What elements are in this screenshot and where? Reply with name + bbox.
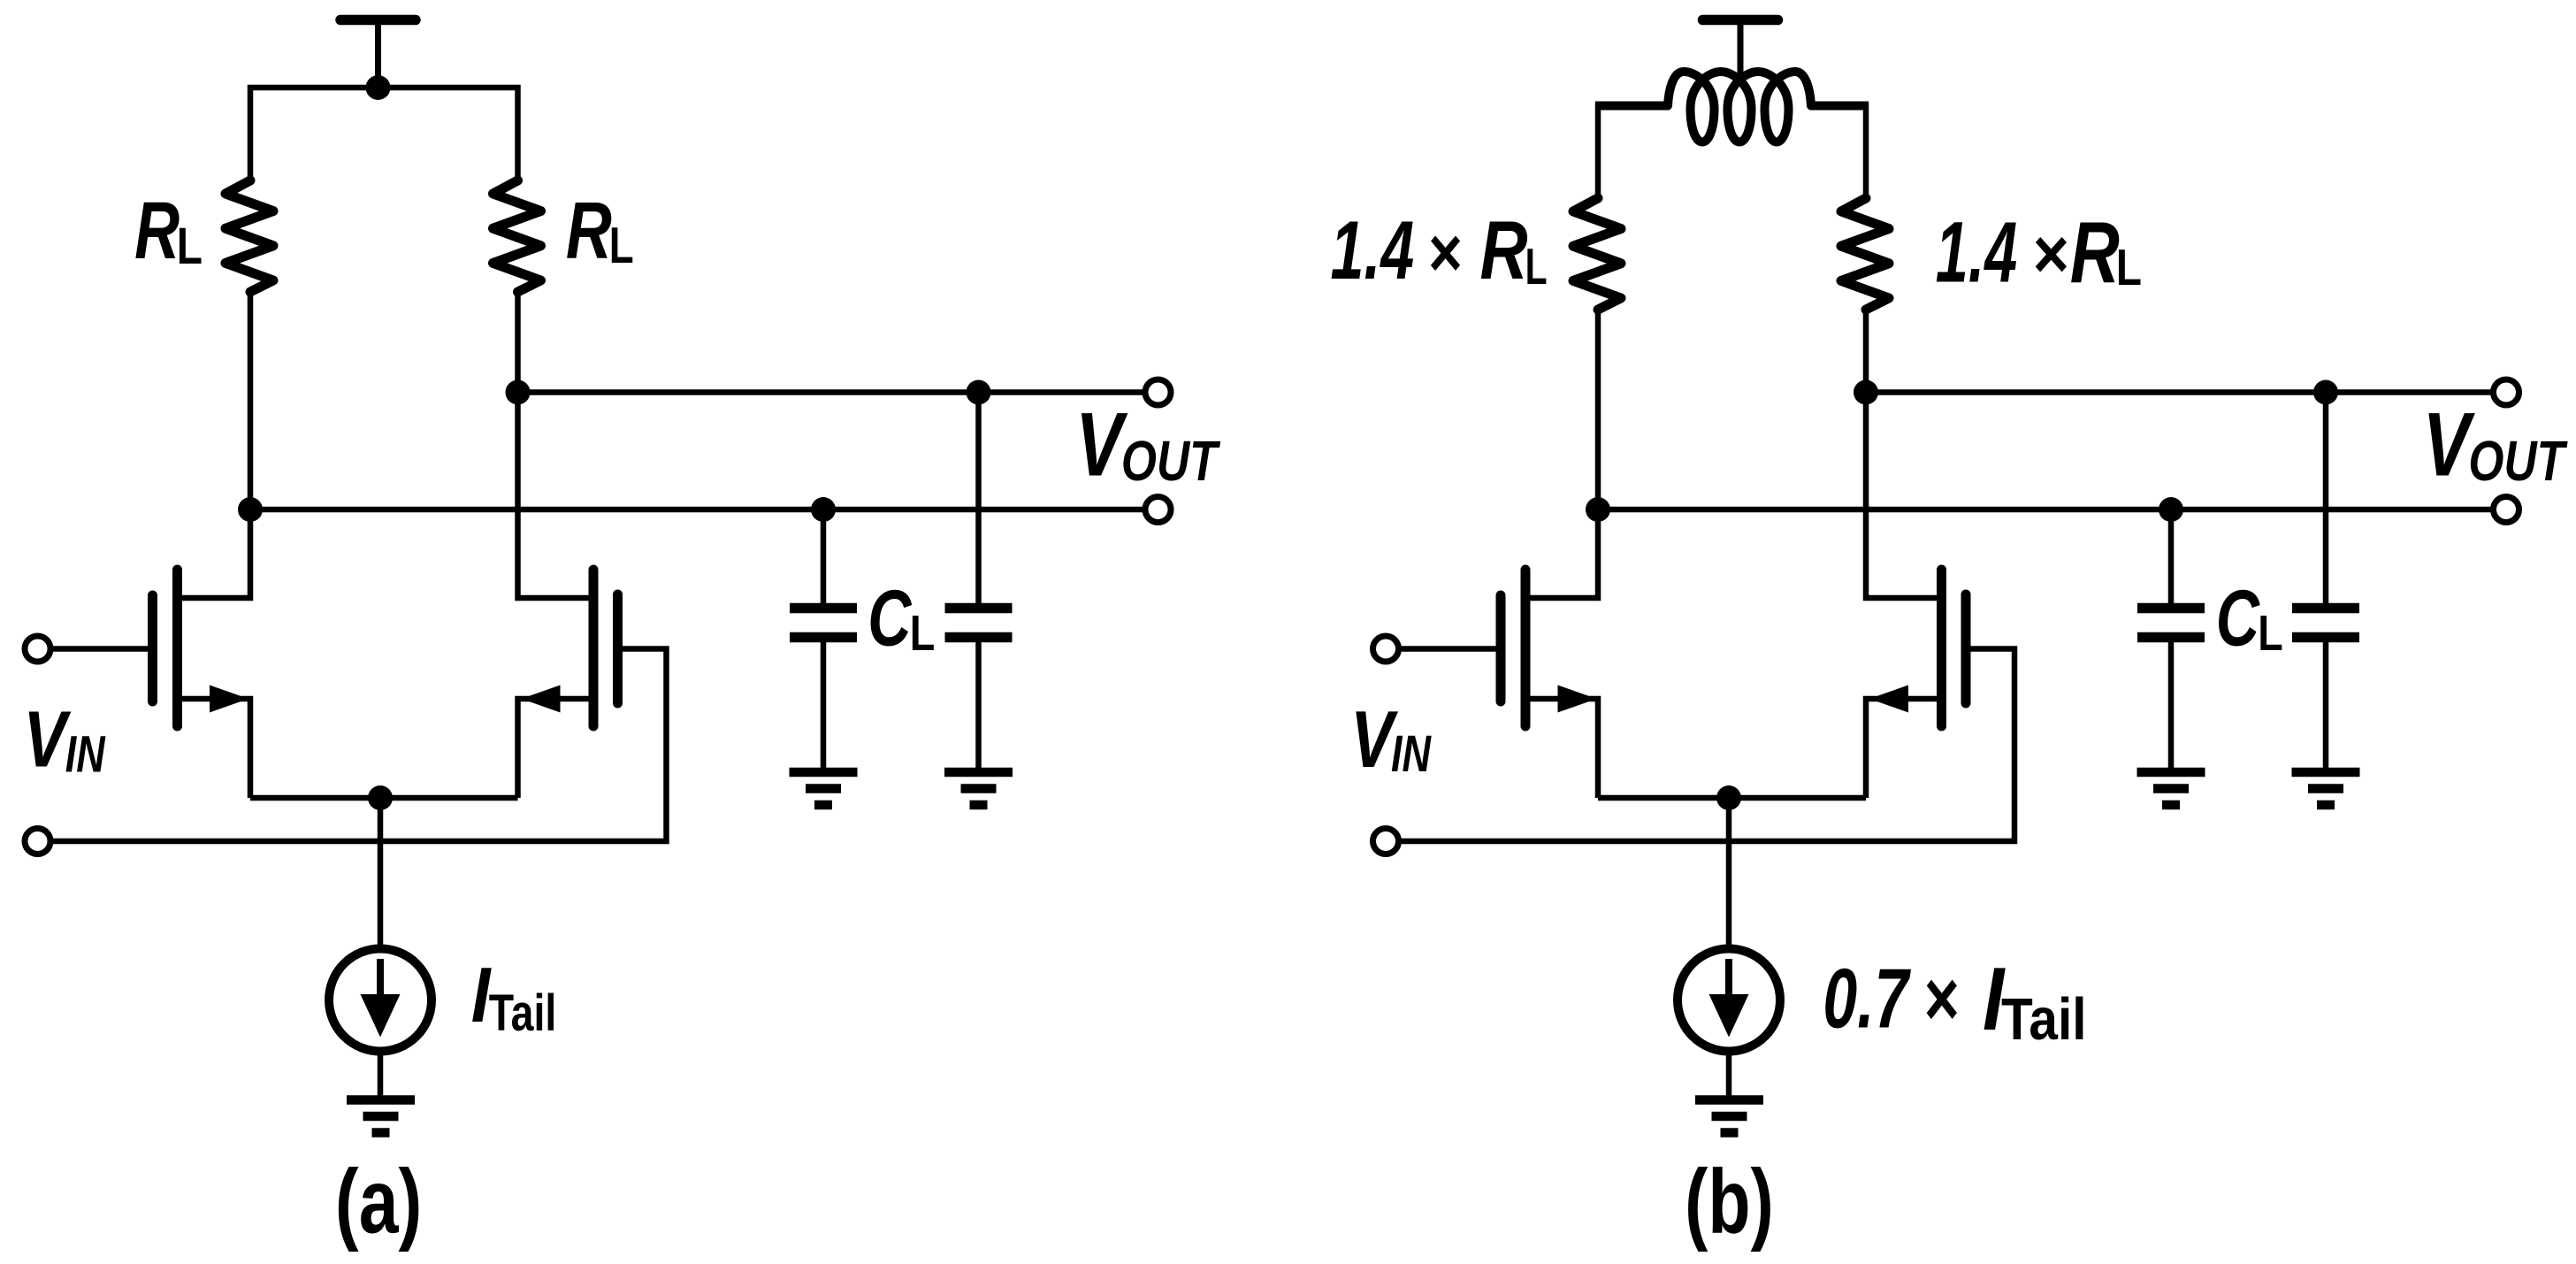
wire left branch (b) [1529,309,1599,598]
wire CL left top (a) [821,509,827,605]
caption (a) [335,1150,422,1253]
transistor M3 channel bar [1521,570,1531,726]
terminal VIN- (b) [1373,829,1399,854]
arrow M4 source [1869,686,1908,713]
label RL (a left) [134,186,203,276]
svg-text:(a): (a) [335,1150,422,1253]
wire M2 source [518,699,591,798]
wire CL left top (b) [2168,509,2175,605]
node tail (b) [1716,785,1741,810]
svg-text:L: L [910,606,936,662]
wire CL left bottom (b) [2168,642,2175,768]
label 1.4xRL (b left) [1331,203,1548,296]
wire top rail (a) [250,88,518,182]
svg-text:Tail: Tail [2001,987,2087,1053]
ground CL right (a) [944,772,1013,805]
svg-text:IN: IN [1391,724,1432,782]
resistor 1.4RL (b right) [1841,198,1889,310]
capacitor CL (b left) [2137,609,2205,638]
label 0.7xITail (b) [1823,950,2086,1053]
svg-text:R: R [134,186,180,276]
wire M2 gate [50,649,667,842]
node tail (a) [368,785,393,810]
arrow M3 source [1558,686,1597,713]
wire VOUT- (b) [1598,507,2495,513]
label RL (a right) [566,186,634,275]
capacitor CL (a left) [790,609,857,638]
wire M1 gate [50,646,149,652]
wire tail stem (a) [378,798,384,949]
wire below current source (b) [1726,1051,1732,1098]
wire VOUT+ (b) [1866,389,2495,395]
caption (b) [1685,1151,1774,1253]
terminal VIN+ (a) [25,636,50,662]
svg-text:V: V [2423,395,2475,494]
terminal VOUT+ (b) [2494,379,2519,405]
svg-text:V: V [1075,395,1127,494]
resistor 1.4RL (b left) [1573,198,1621,310]
svg-text:Tail: Tail [489,984,557,1042]
power rail VDD symbol (b) [1703,20,1778,82]
terminal VIN+ (b) [1373,636,1399,662]
power rail VDD symbol (a) [340,20,416,87]
node CL left (b) [2159,497,2183,522]
arrow M2 source [522,686,561,713]
label VOUT (b) [2423,395,2568,494]
svg-text:C: C [2216,573,2260,662]
ground CL right (b) [2292,772,2360,805]
transistor M2 gate bar [613,594,623,703]
wire VOUT- (a) [250,507,1147,513]
terminal VIN- (a) [25,829,50,854]
svg-text:C: C [868,573,912,662]
svg-text:L: L [1525,238,1548,295]
terminal VOUT- (a) [1145,497,1171,523]
label CL (b) [2216,573,2283,662]
current source 0.7 ITail (b) [1678,949,1780,1052]
svg-text:OUT: OUT [2468,431,2568,493]
svg-text:R: R [566,186,612,275]
svg-text:R: R [1480,203,1528,296]
svg-text:1.4: 1.4 [1331,205,1415,297]
wire right branch (b) [1866,309,1938,598]
wire CL right top (a) [975,393,982,606]
wire M3 gate [1398,646,1498,652]
resistor RL (a left) [225,180,273,292]
wire M1 source [180,699,250,798]
svg-text:OUT: OUT [1121,431,1221,493]
node rail junction (a) [366,75,391,100]
wire CL left bottom (a) [821,642,827,768]
svg-text:R: R [2070,203,2120,301]
current source ITail (a) [329,949,432,1052]
node CL right (b) [2313,380,2338,405]
node left drain (a) [238,497,263,522]
wire M4 gate [1398,649,2015,842]
svg-text:×: × [1428,214,1463,292]
wire CL right bottom (b) [2323,642,2329,768]
wire below current source (a) [378,1051,384,1098]
transistor M1 gate bar [148,595,157,701]
wire left branch (a) [180,291,250,598]
resistor RL (a right) [493,180,541,292]
svg-text:IN: IN [65,726,106,784]
node left drain (b) [1586,497,1610,522]
transistor M4 gate bar [1961,594,1971,703]
inductor L (b) [1595,72,1869,142]
svg-text:×: × [2033,214,2069,293]
svg-text:(b): (b) [1685,1151,1774,1253]
wire CL right top (b) [2323,393,2329,606]
node right drain (a) [506,380,531,405]
svg-text:L: L [2116,240,2142,296]
ground tail (b) [1695,1100,1763,1133]
capacitor CL (b right) [2292,609,2359,638]
svg-text:×: × [1924,954,1960,1043]
svg-text:L: L [2258,606,2283,662]
transistor M3 gate bar [1496,595,1506,701]
svg-text:L: L [609,217,634,273]
svg-text:1.4: 1.4 [1936,204,2017,301]
wire right branch top (b) [1863,103,1869,200]
wire M3 source [1529,699,1599,798]
transistor M2 channel bar [589,570,599,726]
transistor M1 channel bar [172,570,182,726]
label ITail (a) [471,952,557,1043]
wire tail stem (b) [1726,798,1732,949]
wire tail rail (b) [1598,795,1866,801]
wire VOUT+ (a) [518,389,1147,395]
ground CL left (a) [790,772,858,805]
svg-text:L: L [177,218,203,275]
wire M4 source [1866,699,1938,798]
svg-text:0.7: 0.7 [1823,951,1911,1046]
terminal VOUT+ (a) [1145,379,1171,405]
capacitor CL (a right) [945,609,1013,638]
label CL (a) [868,573,935,662]
terminal VOUT- (b) [2494,497,2519,523]
node right drain (b) [1854,380,1878,405]
node CL left (a) [811,497,836,522]
wire CL right bottom (a) [975,642,982,768]
node CL right (a) [967,380,991,405]
ground CL left (b) [2137,772,2205,805]
label VOUT (a) [1075,395,1220,494]
wire left branch top (b) [1595,103,1601,200]
label 1.4xRL (b right) [1936,203,2142,301]
label VIN (b) [1350,695,1432,785]
wire tail rail (a) [250,795,518,801]
label VIN (a) [24,695,106,784]
wire right branch (a) [518,291,591,598]
ground tail (a) [347,1100,415,1133]
transistor M4 channel bar [1937,570,1946,726]
svg-text:V: V [24,695,72,784]
arrow M1 source [210,686,248,713]
